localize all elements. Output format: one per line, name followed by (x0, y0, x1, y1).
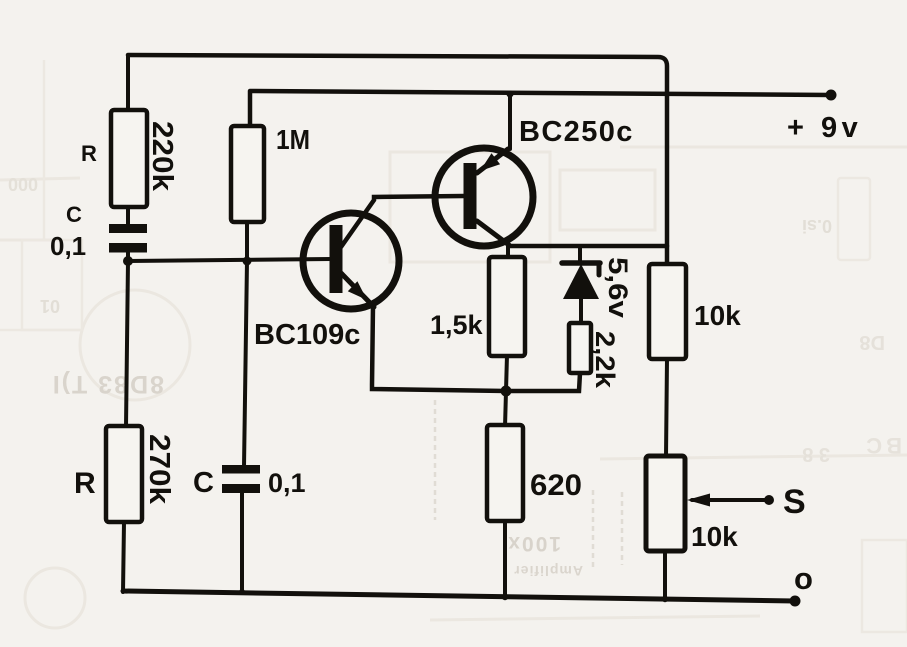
resistor 1M (231, 126, 264, 222)
wire: 620 to bottom rail (503, 521, 507, 598)
junction: 620 / 0V rail (502, 594, 508, 600)
svg-text:BC250c: BC250c (519, 116, 634, 148)
svg-text:0.si: 0.si (802, 216, 832, 236)
wire: 10k top lead (666, 359, 667, 457)
node: 0V terminal dot (790, 596, 801, 607)
wire: pot bottom to bottom rail (663, 550, 667, 600)
resistor 10k (upper) (649, 264, 686, 359)
wire: node down to 270k (126, 261, 128, 427)
wire: 1M bottom through junction to C2 (244, 222, 247, 467)
svg-text:5,6v: 5,6v (603, 257, 633, 318)
wire: junction A to 620 (505, 391, 506, 427)
svg-text:620: 620 (530, 469, 582, 502)
svg-text:220k: 220k (146, 121, 178, 192)
svg-text:1,5k: 1,5k (430, 310, 484, 340)
resistor 620 (487, 425, 523, 521)
svg-text:1M: 1M (276, 124, 310, 155)
capacitor C2 0,1 (222, 465, 260, 493)
wire: 1,5k bottom to junction A (506, 355, 507, 391)
transistor Q2 BC250c (435, 148, 533, 246)
svg-text:2,2k: 2,2k (590, 331, 620, 389)
wire: C2 to bottom rail (240, 492, 244, 593)
node: +9v terminal dot (826, 90, 837, 101)
svg-text:0,1: 0,1 (50, 231, 86, 261)
svg-text:C: C (66, 202, 82, 227)
svg-text:000: 000 (8, 174, 38, 194)
zener diode 5,6V (562, 263, 600, 299)
svg-text:R: R (74, 467, 96, 500)
node: input junction (123, 256, 133, 266)
svg-text:+ 9v: + 9v (787, 112, 862, 144)
resistor 1,5k (489, 257, 525, 356)
svg-text:3 8: 3 8 (802, 443, 830, 465)
svg-text:R: R (81, 141, 97, 166)
wire: BC109 emitter down and across to junction A (372, 305, 580, 391)
junction: emitter rail / +9V tap (507, 91, 514, 98)
svg-text:0,1: 0,1 (268, 468, 306, 498)
svg-text:BC: BC (862, 433, 902, 458)
capacitor C1 0,1 (109, 224, 147, 253)
svg-text:10k: 10k (694, 300, 741, 331)
wire: base wire node to BC109 (128, 259, 331, 261)
resistor 2,2k (569, 323, 591, 373)
node A: junction 1,5k / 2,2k / 620 (501, 386, 512, 397)
wire: BC250 emitter to +9V rail (508, 93, 512, 149)
wire: feedback top rail from 220k top to right vertical (128, 55, 667, 264)
svg-text:8D83 T)I: 8D83 T)I (51, 370, 164, 398)
wire: BC250 collector rail to right vertical (509, 244, 667, 249)
svg-text:o: o (794, 561, 813, 596)
svg-text:01: 01 (40, 296, 60, 316)
svg-text:C: C (193, 467, 214, 499)
junction: 1M / base wire (243, 257, 252, 266)
svg-text:10k: 10k (691, 521, 738, 552)
svg-text:D8: D8 (859, 331, 885, 353)
resistor R1 220k (111, 110, 147, 207)
node S terminal dot (764, 495, 774, 505)
wire: bottom 0V rail (123, 591, 795, 601)
wire: 1,5k top lead (506, 246, 510, 259)
svg-text:BC109c: BC109c (254, 319, 360, 351)
junction: C2 / 0V rail (239, 589, 245, 595)
ghost layer (scan bleed-through, decorative) (0, 147, 907, 628)
potentiometer 10k (646, 456, 685, 551)
resistor R 270k (106, 426, 142, 522)
wire: pot wiper to S (692, 498, 769, 502)
wiper arrow (687, 494, 710, 507)
wire: BC109 collector to BC250 base (341, 196, 464, 247)
wire: 270k to bottom rail (123, 522, 124, 592)
wire: +9V rail (250, 91, 831, 127)
svg-text:270k: 270k (143, 434, 175, 505)
junction: pot / 0V rail (662, 596, 668, 602)
wire: 220k to C1 (126, 206, 130, 226)
wire: zener top lead (578, 246, 582, 262)
svg-text:Amplifier: Amplifier (513, 563, 583, 579)
svg-text:S: S (783, 483, 806, 521)
wire: zener to 2,2k (579, 298, 583, 324)
wire: C1 to input node (126, 251, 130, 262)
transistor Q1 BC109c (303, 213, 399, 309)
wire: 220k top lead (126, 55, 130, 112)
svg-text:100x: 100x (506, 532, 561, 555)
